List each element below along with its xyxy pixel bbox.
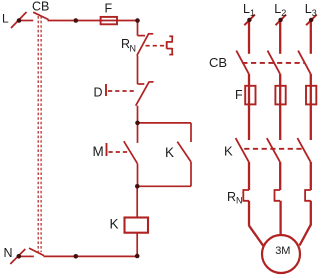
svg-text:K: K	[224, 144, 233, 159]
svg-text:F: F	[105, 2, 113, 16]
svg-text:2: 2	[281, 8, 286, 18]
svg-text:L: L	[2, 12, 9, 26]
svg-text:3M: 3M	[275, 245, 290, 257]
svg-text:1: 1	[250, 8, 255, 18]
svg-text:CB: CB	[32, 0, 49, 14]
svg-text:N: N	[130, 44, 137, 54]
svg-text:K: K	[110, 217, 119, 232]
svg-text:F: F	[235, 88, 243, 102]
svg-text:N: N	[4, 246, 13, 260]
svg-text:L: L	[305, 2, 312, 16]
svg-text:K: K	[165, 145, 174, 160]
svg-text:L: L	[274, 2, 281, 16]
svg-text:R: R	[227, 190, 236, 204]
svg-text:CB: CB	[209, 55, 227, 70]
svg-text:L: L	[243, 2, 250, 16]
svg-text:N: N	[236, 196, 243, 206]
svg-text:D: D	[94, 86, 103, 100]
svg-text:M: M	[93, 144, 104, 159]
svg-text:3: 3	[312, 8, 317, 18]
